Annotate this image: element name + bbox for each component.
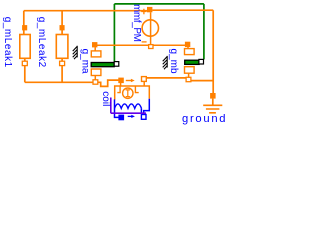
wire ground stub [212,99,214,105]
wire stubs g_mb ports [187,47,190,78]
wire to g_mLeak2 top [61,11,63,35]
wire to g_mLeak1 top [23,11,25,35]
node p of mmf_PM [147,7,152,12]
wire magnetic bottom bus [25,81,93,83]
flange square g_mb [199,59,204,64]
flux direction arrow [126,80,131,82]
wire mmf_PM n to g_ma p and g_mb p [95,45,185,80]
node p of g_mLeak2 [60,25,65,30]
wire g_mLeak2 bottom [61,58,63,82]
wall support g_ma [73,46,78,59]
node p of g_ma [92,42,97,47]
coil loop legs [117,86,138,93]
current arrow [128,115,132,117]
wire green to g_ma flange [113,4,115,61]
node n of g_mb [186,77,191,81]
armature bar g_mb [185,60,199,64]
mmf_PM source line [150,12,152,44]
node ground [210,93,216,99]
node n of g_ma [93,80,98,84]
wire green to g_mb flange [203,4,205,60]
node p of g_mb [185,42,190,47]
ground symbol [203,105,222,113]
wire g_ma n to coil [98,80,119,86]
wire green flange bus top [114,3,203,5]
minus sign [142,41,147,43]
svg-text:g_ma: g_ma [80,49,91,74]
svg-text:ground: ground [182,113,226,125]
wire g_mb n to ground [191,80,213,82]
permeance g_mb lower pole [185,67,195,74]
svg-text:g_mb: g_mb [168,49,179,74]
node p magnetic of coil [118,78,124,84]
node n of g_mLeak2 [60,61,65,65]
pin n electrical [141,115,146,120]
wire electrical left lead [115,99,119,117]
wall support g_mb [163,56,168,69]
svg-text:mmf_PM: mmf_PM [131,4,142,42]
plus sign [141,9,146,14]
wire g_mLeak1 bottom [24,58,26,82]
node p of g_mLeak1 [22,25,27,30]
wire magnetic top bus [24,10,150,12]
svg-text:g_mLeak1: g_mLeak1 [2,17,13,68]
mmf_PM source circle [142,20,158,36]
node n of g_mLeak1 [22,61,27,65]
node n magnetic of coil [142,77,147,82]
leakage permeance g_mLeak2 body [56,35,68,59]
node n of mmf_PM [149,45,153,49]
flange square g_ma [114,62,119,67]
wire mmf_PM p to ground [152,10,213,93]
electrical winding of coil [115,104,142,109]
permeance g_ma upper pole [91,51,101,57]
converter circle [123,88,133,98]
permeance g_ma lower pole [91,69,101,76]
wire violet [111,98,146,114]
wire coil n to g_mb n [147,77,186,79]
svg-text:coil: coil [100,91,111,106]
leakage permeance g_mLeak1 body [20,35,30,59]
svg-text:g_mLeak2: g_mLeak2 [36,17,47,68]
pin p electrical [118,115,124,121]
armature bar g_ma [91,63,114,67]
permeance g_mb upper pole [185,49,195,55]
coil magnetic loop [115,82,150,100]
wire electrical right lead [144,99,150,115]
